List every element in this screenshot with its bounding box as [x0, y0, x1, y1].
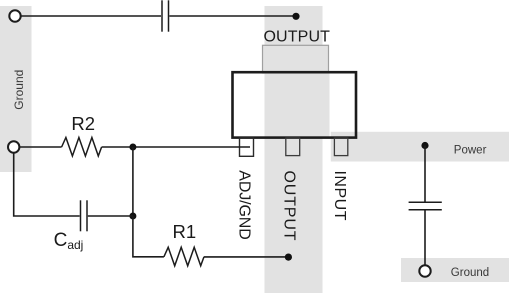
junction dot on OUTPUT net (top)	[292, 13, 299, 20]
label: Cadj	[54, 230, 84, 252]
junction dot on OUTPUT net (bottom)	[285, 254, 292, 261]
wire: R1 to OUTPUT net	[204, 256, 288, 258]
svg-text:OUTPUT: OUTPUT	[281, 171, 298, 241]
label: pin ADJ/GND (rotated)	[235, 170, 252, 240]
pin 1 (ADJ/GND)	[240, 138, 254, 156]
pin 2 (OUTPUT)	[286, 138, 300, 156]
label: OUTPUT (tab)	[263, 29, 330, 46]
net band: Ground (bottom right)	[401, 258, 509, 282]
svg-text:ADJ/GND: ADJ/GND	[235, 170, 252, 240]
regulator body U1 (SOT-223)	[233, 72, 357, 137]
label: Ground (left band, rotated)	[12, 70, 26, 110]
terminal: ground (top left)	[9, 10, 20, 21]
label: Ground (right band)	[451, 267, 489, 279]
svg-text:Ground: Ground	[451, 267, 489, 279]
svg-text:INPUT: INPUT	[331, 171, 348, 221]
junction dot on Power net	[421, 142, 428, 149]
svg-text:Cadj: Cadj	[54, 230, 84, 252]
junction dot (Cadj / R1 branch)	[129, 213, 136, 220]
wire: input capacitor down to ground terminal	[424, 210, 426, 265]
resistor R1	[164, 247, 204, 265]
label: R2	[71, 113, 95, 134]
capacitor (input bypass, right)	[409, 202, 442, 210]
svg-text:OUTPUT: OUTPUT	[263, 29, 330, 46]
net band: Ground (left)	[0, 6, 32, 172]
net band: OUTPUT (center)	[265, 6, 323, 293]
svg-text:Power: Power	[454, 145, 487, 157]
svg-text:R2: R2	[71, 113, 95, 134]
svg-text:R1: R1	[172, 221, 196, 242]
wire: Cadj to junction	[88, 215, 133, 217]
wire: R2 to ADJ pin	[102, 146, 250, 148]
pin 3 (INPUT)	[334, 138, 347, 156]
wire: node A down to Cadj branch	[132, 147, 134, 216]
wire: top-left terminal to top capacitor	[21, 15, 161, 17]
wire: terminal to R2	[19, 146, 61, 148]
wire: Power net down to input capacitor	[424, 146, 426, 203]
capacitor (output bypass, top)	[162, 0, 169, 31]
net band: Power (right)	[331, 132, 509, 162]
junction node A (R2 / Cadj / R1)	[129, 144, 136, 151]
label: pin INPUT (rotated)	[331, 171, 348, 221]
wire: top capacitor to OUTPUT net	[169, 15, 296, 17]
resistor R2	[62, 138, 102, 157]
wire: terminal down and right to Cadj	[14, 153, 80, 216]
capacitor Cadj	[81, 200, 88, 231]
label: pin OUTPUT (rotated)	[281, 171, 298, 241]
regulator tab (OUTPUT tab of U1)	[263, 45, 330, 136]
label: Power (right band)	[454, 145, 487, 157]
terminal: ground (bottom right)	[419, 265, 430, 276]
label: R1	[172, 221, 196, 242]
terminal: ground (mid left)	[8, 141, 19, 152]
wire: junction down and right to R1	[133, 216, 164, 257]
svg-text:Ground: Ground	[12, 70, 26, 110]
